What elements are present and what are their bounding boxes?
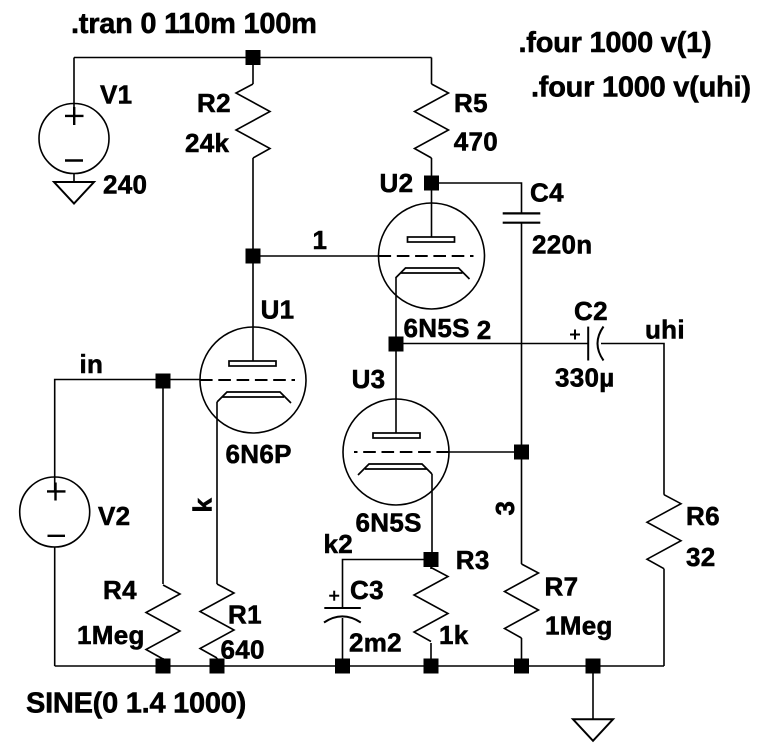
svg-text:32: 32 [686, 542, 716, 572]
svg-text:V2: V2 [98, 501, 130, 531]
svg-text:6N6P: 6N6P [226, 439, 292, 469]
svg-text:1k: 1k [439, 620, 469, 650]
svg-text:R6: R6 [686, 501, 720, 531]
svg-text:.four 1000 v(1): .four 1000 v(1) [519, 27, 712, 59]
svg-text:6N5S: 6N5S [404, 313, 470, 343]
svg-text:C3: C3 [350, 575, 384, 605]
svg-text:470: 470 [454, 127, 498, 157]
svg-text:24k: 24k [185, 128, 230, 158]
svg-text:.tran 0 110m 100m: .tran 0 110m 100m [71, 8, 317, 40]
svg-text:240: 240 [103, 170, 147, 200]
svg-text:1: 1 [313, 225, 328, 255]
svg-text:R2: R2 [197, 88, 231, 118]
svg-text:2: 2 [477, 315, 492, 345]
svg-text:U1: U1 [261, 295, 295, 325]
svg-text:3: 3 [490, 501, 520, 516]
svg-text:U2: U2 [380, 168, 414, 198]
svg-text:640: 640 [221, 635, 265, 665]
svg-text:6N5S: 6N5S [356, 508, 422, 538]
svg-text:C4: C4 [530, 178, 564, 208]
svg-text:R5: R5 [454, 88, 488, 118]
svg-text:uhi: uhi [645, 315, 685, 345]
svg-text:R7: R7 [545, 572, 579, 602]
svg-text:330µ: 330µ [555, 363, 615, 393]
svg-text:R3: R3 [456, 545, 490, 575]
svg-text:U3: U3 [352, 364, 386, 394]
svg-text:C2: C2 [574, 296, 608, 326]
svg-text:V1: V1 [100, 80, 132, 110]
svg-text:1Meg: 1Meg [545, 611, 613, 641]
svg-text:SINE(0 1.4 1000): SINE(0 1.4 1000) [26, 688, 246, 720]
svg-text:in: in [80, 349, 104, 379]
svg-text:2m2: 2m2 [349, 628, 402, 658]
svg-text:k: k [188, 498, 218, 513]
svg-text:.four 1000 v(uhi): .four 1000 v(uhi) [531, 72, 751, 104]
svg-text:220n: 220n [532, 230, 592, 260]
svg-text:R4: R4 [103, 575, 137, 605]
svg-text:k2: k2 [324, 529, 354, 559]
svg-text:1Meg: 1Meg [77, 620, 145, 650]
svg-text:R1: R1 [228, 600, 262, 630]
